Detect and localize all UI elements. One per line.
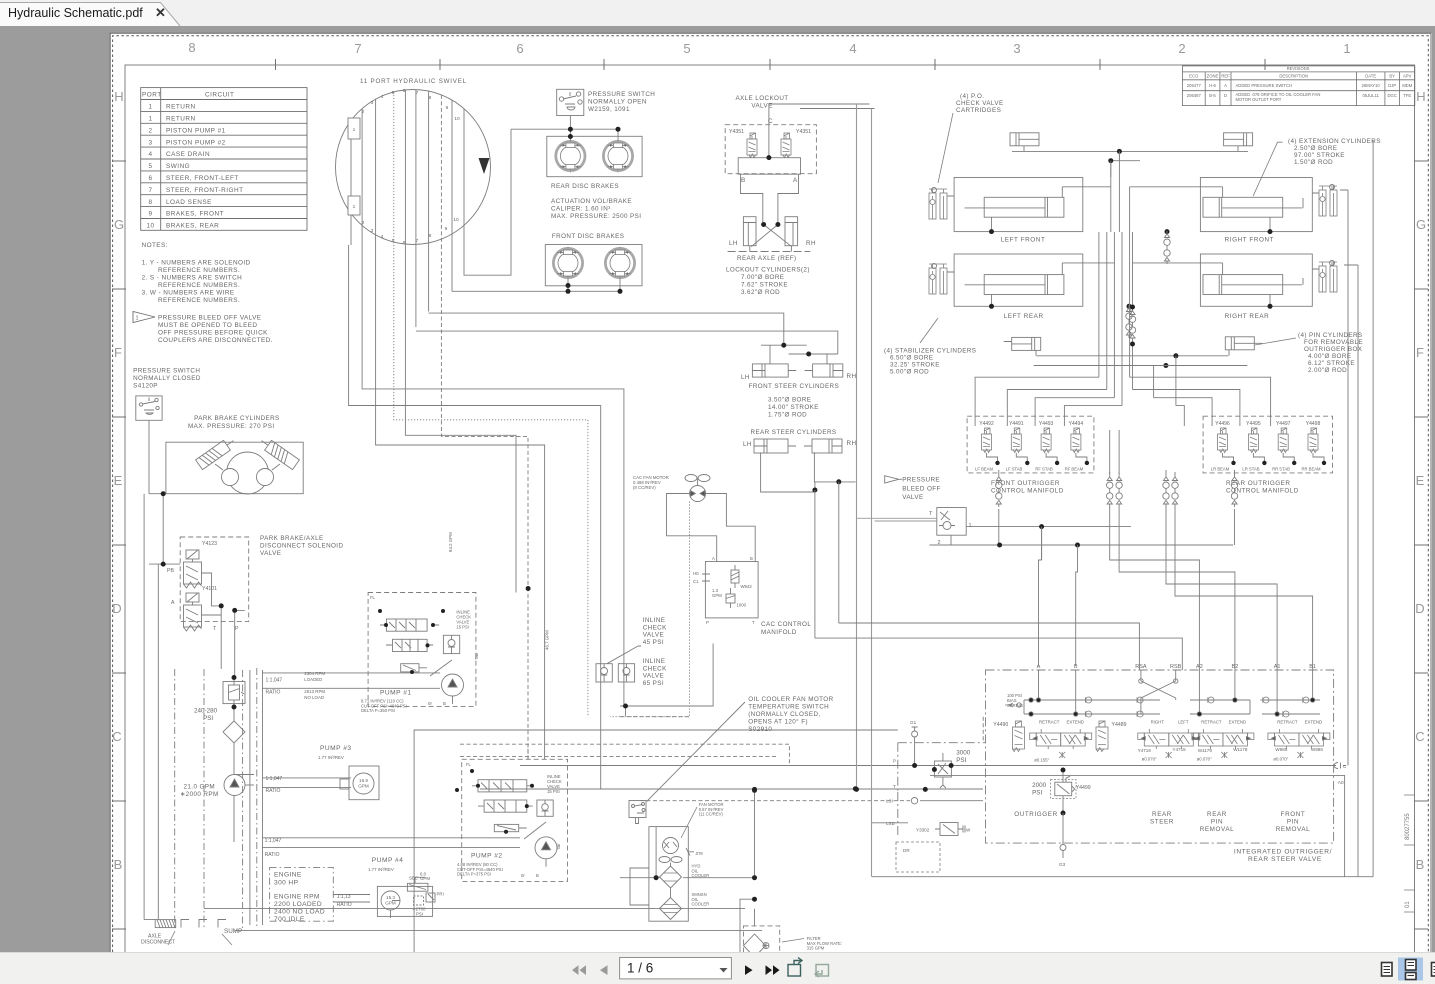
svg-text:Tair: Tair [474,652,479,660]
svg-text:2.50"Ø BORE: 2.50"Ø BORE [1294,145,1337,152]
240-280 psi valve [223,677,245,775]
svg-text:PB: PB [167,568,174,574]
svg-text:7: 7 [416,90,419,96]
svg-text:B: B [114,857,123,872]
svg-text:84.2 GPM: 84.2 GPM [448,532,453,552]
svg-text:REAR STEER CYLINDERS: REAR STEER CYLINDERS [751,429,837,436]
svg-text:DJP: DJP [1388,83,1396,88]
svg-text:LOADED: LOADED [304,677,322,682]
internal top circuit lines [1005,670,1320,717]
svg-text:RETRACT: RETRACT [1201,720,1222,725]
svg-text:05JUL11: 05JUL11 [1362,93,1379,98]
svg-text:INLINE: INLINE [643,617,666,624]
svg-text:B: B [536,873,539,878]
rear steer cylinders [754,439,856,492]
stabilizer/pin small cylinders [1004,337,1263,356]
svg-text:15.3: 15.3 [386,895,395,900]
21 GPM pump [224,775,254,796]
park brake / axle disconnect solenoid valve [260,535,343,557]
svg-text:RETRACT: RETRACT [1039,720,1060,725]
svg-text:S4120P: S4120P [133,383,158,390]
svg-text:CAC CONTROL: CAC CONTROL [761,621,811,628]
pump #2 assembly [462,759,568,881]
svg-text:315 GPM: 315 GPM [807,946,825,951]
bottom toolbar [0,952,1435,984]
svg-text:G: G [114,217,124,232]
vertical text 84.2 gpm [448,532,453,552]
svg-text:2400 NO LOAD: 2400 NO LOAD [274,909,325,916]
svg-text:REVISIONS: REVISIONS [1287,66,1310,71]
svg-text:MANIFOLD: MANIFOLD [761,629,797,636]
svg-text:PIN: PIN [1211,819,1223,826]
svg-text:TEMPERATURE SWITCH: TEMPERATURE SWITCH [748,704,829,711]
svg-text:T: T [929,511,933,517]
svg-text:RETRACT: RETRACT [1277,720,1298,725]
svg-text:RETURN: RETURN [166,116,196,123]
svg-text:ADDED PRESSURE SWITCH: ADDED PRESSURE SWITCH [1236,83,1293,88]
svg-text:P: P [893,759,896,764]
svg-text:6: 6 [148,175,152,182]
svg-text:3: 3 [371,228,374,234]
svg-text:P: P [706,620,709,625]
svg-text:1:1,13: 1:1,13 [337,894,351,900]
svg-text:7.00"Ø BORE: 7.00"Ø BORE [741,274,784,281]
revisions table [1182,66,1414,106]
svg-text:A: A [793,177,798,184]
svg-text:10: 10 [146,223,154,230]
mid coupler chain between rows [1164,231,1170,264]
svg-text:G1: G1 [910,720,917,725]
svg-text:GPM: GPM [712,593,722,598]
svg-text:MUST BE OPENED TO BLEED: MUST BE OPENED TO BLEED [158,322,257,329]
drawing number right margin [1405,813,1411,908]
svg-text:6.50"Ø BORE: 6.50"Ø BORE [890,355,933,362]
svg-text:206487: 206487 [1187,93,1202,98]
svg-text:8: 8 [188,40,195,55]
port / circuit table [141,88,307,231]
svg-text:Tair: Tair [556,843,561,850]
svg-text:RR STAB: RR STAB [1272,467,1290,472]
svg-text:A: A [171,600,175,606]
svg-text:FRONT: FRONT [1281,811,1306,818]
svg-text:∗2000 RPM: ∗2000 RPM [180,791,219,798]
svg-text:E: E [114,473,123,488]
svg-text:5: 5 [683,41,690,56]
center bundle verticals [1099,151,1133,474]
svg-text:C: C [1343,764,1347,769]
swivel rotation arrow [479,158,490,174]
svg-text:BRAKES, FRONT: BRAKES, FRONT [166,211,224,218]
svg-text:PSI: PSI [203,715,213,722]
svg-text:7: 7 [148,187,152,194]
svg-text:T: T [752,620,755,625]
svg-text:LOCKOUT CYLINDERS(2): LOCKOUT CYLINDERS(2) [726,267,810,274]
svg-text:FL: FL [370,595,376,600]
svg-text:1: 1 [136,316,139,322]
svg-text:NO LOAD: NO LOAD [304,695,324,700]
orifices [1059,752,1303,758]
svg-text:VALVE: VALVE [902,494,923,501]
svg-text:STEER: STEER [1150,819,1174,826]
svg-text:4: 4 [148,151,152,158]
svg-text:(11 CC/REV): (11 CC/REV) [699,812,724,817]
svg-text:1: 1 [148,104,152,111]
pump #4 [372,857,404,864]
Y3302 valve [935,823,965,836]
note flag 1 [133,312,155,323]
G1 port [912,727,918,766]
svg-text:Y4101: Y4101 [202,586,217,592]
left feeds into integrated A/B [1041,527,1043,560]
svg-text:LH: LH [729,240,738,247]
svg-text:21.0 GPM: 21.0 GPM [184,784,216,791]
svg-text:LEFT: LEFT [1178,720,1189,725]
svg-text:MOTOR OUTLET PORT: MOTOR OUTLET PORT [1236,97,1282,102]
svg-text:RATIO: RATIO [265,852,280,858]
svg-text:W: W [966,828,971,833]
wire swivel to brakes [452,129,511,291]
svg-text:MAX. PRESSURE: 2500 PSI: MAX. PRESSURE: 2500 PSI [551,213,641,220]
svg-text:REAR AXLE (REF): REAR AXLE (REF) [737,255,797,262]
park brake cylinders [188,415,280,430]
svg-text:LH: LH [743,441,752,448]
svg-text:REAR: REAR [1152,811,1172,818]
svg-text:G: G [1416,217,1426,232]
svg-text:CARTRIDGES: CARTRIDGES [956,107,1001,114]
svg-text:(4) PIN CYLINDERS: (4) PIN CYLINDERS [1298,332,1363,339]
svg-text:8: 8 [429,233,432,239]
P bus [480,140,1373,877]
svg-text:RF STAB: RF STAB [1035,467,1053,472]
svg-text:Y4494: Y4494 [1069,421,1084,427]
svg-text:2: 2 [362,220,365,226]
svg-text:Y4499: Y4499 [1076,785,1091,791]
svg-text:SUMP: SUMP [224,928,242,935]
svg-text:9: 9 [446,105,449,111]
svg-text:LF BEAM: LF BEAM [975,467,993,472]
right rear cylinder [1133,254,1313,306]
svg-text:DGC: DGC [1388,93,1397,98]
svg-text:LR STAB: LR STAB [1242,467,1259,472]
right side long verticals [1303,187,1358,877]
svg-text:EXTEND: EXTEND [1066,720,1083,725]
11 port hydraulic swivel [360,78,467,85]
svg-text:PRI: PRI [437,892,444,897]
svg-text:(4) STABILIZER CYLINDERS: (4) STABILIZER CYLINDERS [884,348,976,355]
svg-text:REMOVAL: REMOVAL [1276,826,1311,833]
svg-text:OUTRIGGER BOX: OUTRIGGER BOX [1304,346,1363,353]
svg-text:Y4492: Y4492 [979,421,994,427]
svg-text:RIGHT FRONT: RIGHT FRONT [1225,237,1275,244]
front steer cylinders [752,345,842,377]
svg-text:CHECK: CHECK [643,624,667,631]
svg-text:PRESSURE SWITCH: PRESSURE SWITCH [588,91,655,98]
continuous view icon (selected) [1398,958,1423,981]
svg-text:DELTA P=375 PSI: DELTA P=375 PSI [457,872,491,877]
svg-text:C: C [112,729,121,744]
svg-text:STEER, FRONT-RIGHT: STEER, FRONT-RIGHT [166,187,244,194]
svg-text:45 PSI: 45 PSI [643,639,664,646]
svg-text:97.00" STROKE: 97.00" STROKE [1294,152,1345,159]
svg-text:0r: 0r [521,873,525,878]
next page button [745,965,753,975]
svg-text:1.77 IN³/REV: 1.77 IN³/REV [368,867,394,872]
svg-text:F: F [1416,345,1424,360]
svg-text:3: 3 [148,139,152,146]
svg-text:PRESSURE SWITCH: PRESSURE SWITCH [133,368,200,375]
svg-text:W986: W986 [1311,747,1323,752]
svg-text:GPM: GPM [420,876,430,881]
svg-text:ECO: ECO [1189,74,1199,79]
steer feed lines from swivel [416,313,838,354]
svg-text:AXLE LOCKOUT: AXLE LOCKOUT [735,95,788,102]
CAC control manifold [702,562,758,618]
svg-text:7.62" STROKE: 7.62" STROKE [741,282,788,289]
svg-text:80027755: 80027755 [1405,813,1411,840]
svg-text:LOAD SENSE: LOAD SENSE [166,199,212,206]
svg-text:5.00"Ø ROD: 5.00"Ø ROD [890,369,929,376]
svg-text:W985: W985 [1275,747,1287,752]
svg-text:CASE DRAIN: CASE DRAIN [166,151,210,158]
svg-text:REFERENCE NUMBERS.: REFERENCE NUMBERS. [158,297,240,304]
svg-text:OFF PRESSURE BEFORE QUICK: OFF PRESSURE BEFORE QUICK [158,330,268,337]
svg-text:4: 4 [381,234,384,240]
extension cylinders (top small pair) [1010,133,1253,177]
swivel bundle staircase wires [349,245,624,789]
svg-text:PRESSURE BLEED OFF VALVE: PRESSURE BLEED OFF VALVE [158,315,261,322]
long horizontals mid [144,644,898,960]
svg-text:Y4351: Y4351 [796,129,811,135]
svg-text:ø0.155": ø0.155" [1034,758,1049,763]
inline check valves 45/65 psi [596,646,641,682]
single page view icon [1382,963,1393,977]
svg-text:RH: RH [806,240,816,247]
svg-text:Y4351: Y4351 [729,129,744,135]
svg-text:H0: H0 [693,571,699,576]
svg-text:0r: 0r [428,701,432,706]
svg-text:W942: W942 [741,584,753,589]
svg-text:REAR STEER VALVE: REAR STEER VALVE [1248,856,1322,863]
integrated outrigger / rear steer valve box [898,670,1334,843]
svg-text:BY: BY [1389,74,1395,79]
svg-text:PUMP #2: PUMP #2 [471,853,503,860]
DR dashed box [896,842,940,872]
right front cylinder [1130,178,1313,232]
front disc brakes [452,245,642,292]
svg-text:LH: LH [741,374,750,381]
svg-text:RH: RH [847,373,857,380]
zone row letters [112,89,1426,872]
svg-text:PIN: PIN [1287,819,1299,826]
svg-text:1:1,047: 1:1,047 [265,838,282,844]
svg-text:B-5: B-5 [1209,93,1216,98]
svg-text:H: H [1416,89,1425,104]
svg-text:Y4123: Y4123 [202,541,217,547]
rear outrigger control manifold [1203,416,1332,473]
svg-text:RATIO: RATIO [266,689,281,695]
mid coupler chain below rear row [1126,305,1132,338]
pressure bleed off valve [857,476,1235,560]
svg-text:FL: FL [466,762,472,767]
svg-text:CHECK VALVE: CHECK VALVE [956,100,1004,107]
svg-text:COOLER: COOLER [692,902,710,907]
svg-text:CIRCUIT: CIRCUIT [205,92,234,99]
svg-text:RF BEAM: RF BEAM [1065,467,1084,472]
top port labels [1037,664,1316,670]
svg-text:A: A [712,556,715,561]
left front cylinder [954,178,1111,232]
svg-text:ENGINE RPM: ENGINE RPM [274,894,320,901]
svg-text:1:1,047: 1:1,047 [266,776,283,782]
svg-text:PUMP #3: PUMP #3 [320,745,352,752]
svg-text:SWING: SWING [166,163,190,170]
Y4101 valve [184,593,202,631]
last page button [766,965,780,975]
svg-text:CONTROL MANIFOLD: CONTROL MANIFOLD [991,488,1064,495]
svg-text:15 PSI: 15 PSI [547,789,560,794]
zone column numbers [188,40,1350,56]
svg-text:1.75"Ø ROD: 1.75"Ø ROD [768,412,807,419]
svg-text:LF STAB: LF STAB [1006,467,1023,472]
svg-text:W1179: W1179 [1198,748,1213,753]
svg-text:.078: .078 [695,851,704,856]
svg-text:PARK BRAKE/AXLE: PARK BRAKE/AXLE [260,535,324,542]
axle lockout valve [735,95,788,110]
svg-text:1: 1 [353,204,356,210]
svg-text:W2159, 1091: W2159, 1091 [588,106,630,113]
svg-text:RR BEAM: RR BEAM [1301,467,1321,472]
svg-text:REAR OUTRIGGER: REAR OUTRIGGER [1226,480,1290,487]
svg-text:LEFT REAR: LEFT REAR [1004,313,1044,320]
engine [270,868,334,922]
svg-text:D: D [112,601,121,616]
svg-text:3: 3 [371,100,374,106]
svg-text:NORMALLY OPEN: NORMALLY OPEN [588,99,647,106]
page combo box [620,958,732,979]
svg-text:Y4490: Y4490 [993,722,1008,728]
svg-text:01: 01 [1405,901,1411,908]
svg-text:EXTEND: EXTEND [1229,720,1246,725]
svg-text:2. S - NUMBERS ARE SWITCH: 2. S - NUMBERS ARE SWITCH [142,275,243,282]
Y4123 valve [184,550,202,588]
svg-text:Y4498: Y4498 [1306,421,1321,427]
svg-text:3.62"Ø ROD: 3.62"Ø ROD [741,289,780,296]
svg-text:B: B [741,177,745,184]
svg-text:3: 3 [1013,41,1020,56]
svg-text:COUPLERS ARE DISCONNECTED.: COUPLERS ARE DISCONNECTED. [158,337,273,344]
svg-text:B: B [443,701,446,706]
svg-text:5: 5 [148,163,152,170]
svg-text:2: 2 [362,109,365,115]
svg-text:2: 2 [148,127,152,134]
section labels [1014,811,1310,833]
svg-text:GPM: GPM [358,784,369,789]
fan motor + coolers [699,802,724,817]
svg-text:11 PORT HYDRAULIC SWIVEL: 11 PORT HYDRAULIC SWIVEL [360,78,467,85]
svg-text:10: 10 [453,217,459,223]
svg-text:D: D [1415,601,1424,616]
svg-text:ZONE: ZONE [1207,74,1219,79]
svg-text:DATE: DATE [1365,74,1376,79]
svg-text:VALVE: VALVE [260,550,281,557]
svg-text:DESCRIPTION: DESCRIPTION [1279,74,1308,79]
svg-text:A: A [1224,83,1227,88]
svg-text:2200 LOADED: 2200 LOADED [274,901,322,908]
svg-text:LEFT FRONT: LEFT FRONT [1001,237,1046,244]
svg-text:REFERENCE NUMBERS.: REFERENCE NUMBERS. [158,267,240,274]
svg-text:H: H [114,89,123,104]
manifold feed staircases (rear) [1130,377,1271,426]
svg-text:T: T [893,784,896,789]
svg-text:B: B [750,556,753,561]
svg-text:SEC: SEC [409,876,418,881]
svg-text:7: 7 [416,238,419,244]
svg-text:1: 1 [148,116,152,123]
svg-text:INLINE: INLINE [643,658,666,665]
2000 psi + Y4499 [1051,770,1077,813]
svg-text:E: E [1416,473,1425,488]
svg-text:OPENS AT 120° F): OPENS AT 120° F) [748,718,808,726]
tab bar [0,0,1435,26]
svg-text:W1178: W1178 [1233,747,1248,752]
svg-text:PARK BRAKE CYLINDERS: PARK BRAKE CYLINDERS [194,415,280,422]
svg-text:ENGINE: ENGINE [274,872,302,879]
chain on center line [1129,308,1135,341]
svg-text:F: F [114,345,122,360]
svg-text:6: 6 [403,88,406,94]
svg-text:PISTON PUMP #1: PISTON PUMP #1 [166,127,226,134]
svg-text:G3: G3 [1059,862,1066,867]
svg-text:BRAKES, REAR: BRAKES, REAR [166,223,219,230]
axle disconnect [155,920,226,928]
svg-text:PSI: PSI [1032,789,1042,796]
partial icon right edge [1432,963,1435,977]
svg-text:700 IDLE: 700 IDLE [274,916,305,923]
port labels left [886,759,896,827]
svg-text:ø0.070": ø0.070" [1197,757,1212,762]
svg-text:OIL COOLER FAN MOTOR: OIL COOLER FAN MOTOR [748,696,833,703]
svg-text:2304 RPM: 2304 RPM [304,671,325,676]
svg-text:RATIO: RATIO [266,788,281,794]
svg-text:1: 1 [353,127,356,133]
svg-text:RH: RH [847,440,857,447]
svg-text:Y4497: Y4497 [1276,421,1291,427]
svg-text:ø0.070": ø0.070" [1142,757,1157,762]
check valve cartridges columns [929,185,1337,295]
svg-text:MDM: MDM [1402,83,1413,88]
svg-text:CHECK: CHECK [643,665,667,672]
svg-text:T: T [213,626,217,632]
svg-text:VALVE: VALVE [643,632,664,639]
svg-text:(4) P.O.: (4) P.O. [960,93,984,100]
svg-text:Y4495: Y4495 [1246,421,1261,427]
svg-text:(4) EXTENSION CYLINDERS: (4) EXTENSION CYLINDERS [1288,138,1381,145]
svg-text:5: 5 [392,238,395,244]
svg-text:RATIO: RATIO [337,902,352,908]
svg-text:6: 6 [516,41,523,56]
svg-text:1. Y - NUMBERS ARE SOLENOID: 1. Y - NUMBERS ARE SOLENOID [142,260,251,267]
rear axle (ref) [728,174,811,251]
svg-text:(NORMALLY CLOSED,: (NORMALLY CLOSED, [748,711,820,718]
prev page button (disabled) [600,965,608,975]
main valve sections [1013,721,1330,752]
svg-text:D: D [1224,93,1227,98]
svg-text:A0: A0 [1338,780,1344,785]
svg-text:LR BEAM: LR BEAM [1211,467,1230,472]
svg-text:2000: 2000 [1032,782,1047,789]
svg-text:Y4491: Y4491 [1009,421,1024,427]
svg-text:1: 1 [969,523,972,529]
